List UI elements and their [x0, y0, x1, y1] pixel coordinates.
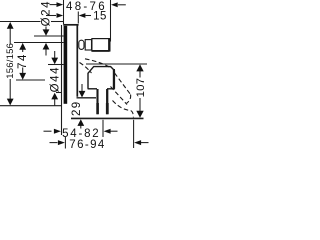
- svg-text:Ø44: Ø44: [49, 66, 61, 93]
- svg-text:29: 29: [71, 100, 83, 116]
- svg-text:15: 15: [93, 10, 107, 22]
- svg-text:107: 107: [135, 78, 147, 98]
- svg-text:76-94: 76-94: [69, 139, 105, 150]
- svg-text:Ø24: Ø24: [41, 0, 53, 26]
- svg-text:74: 74: [17, 53, 29, 69]
- svg-text:156/156: 156/156: [5, 43, 16, 79]
